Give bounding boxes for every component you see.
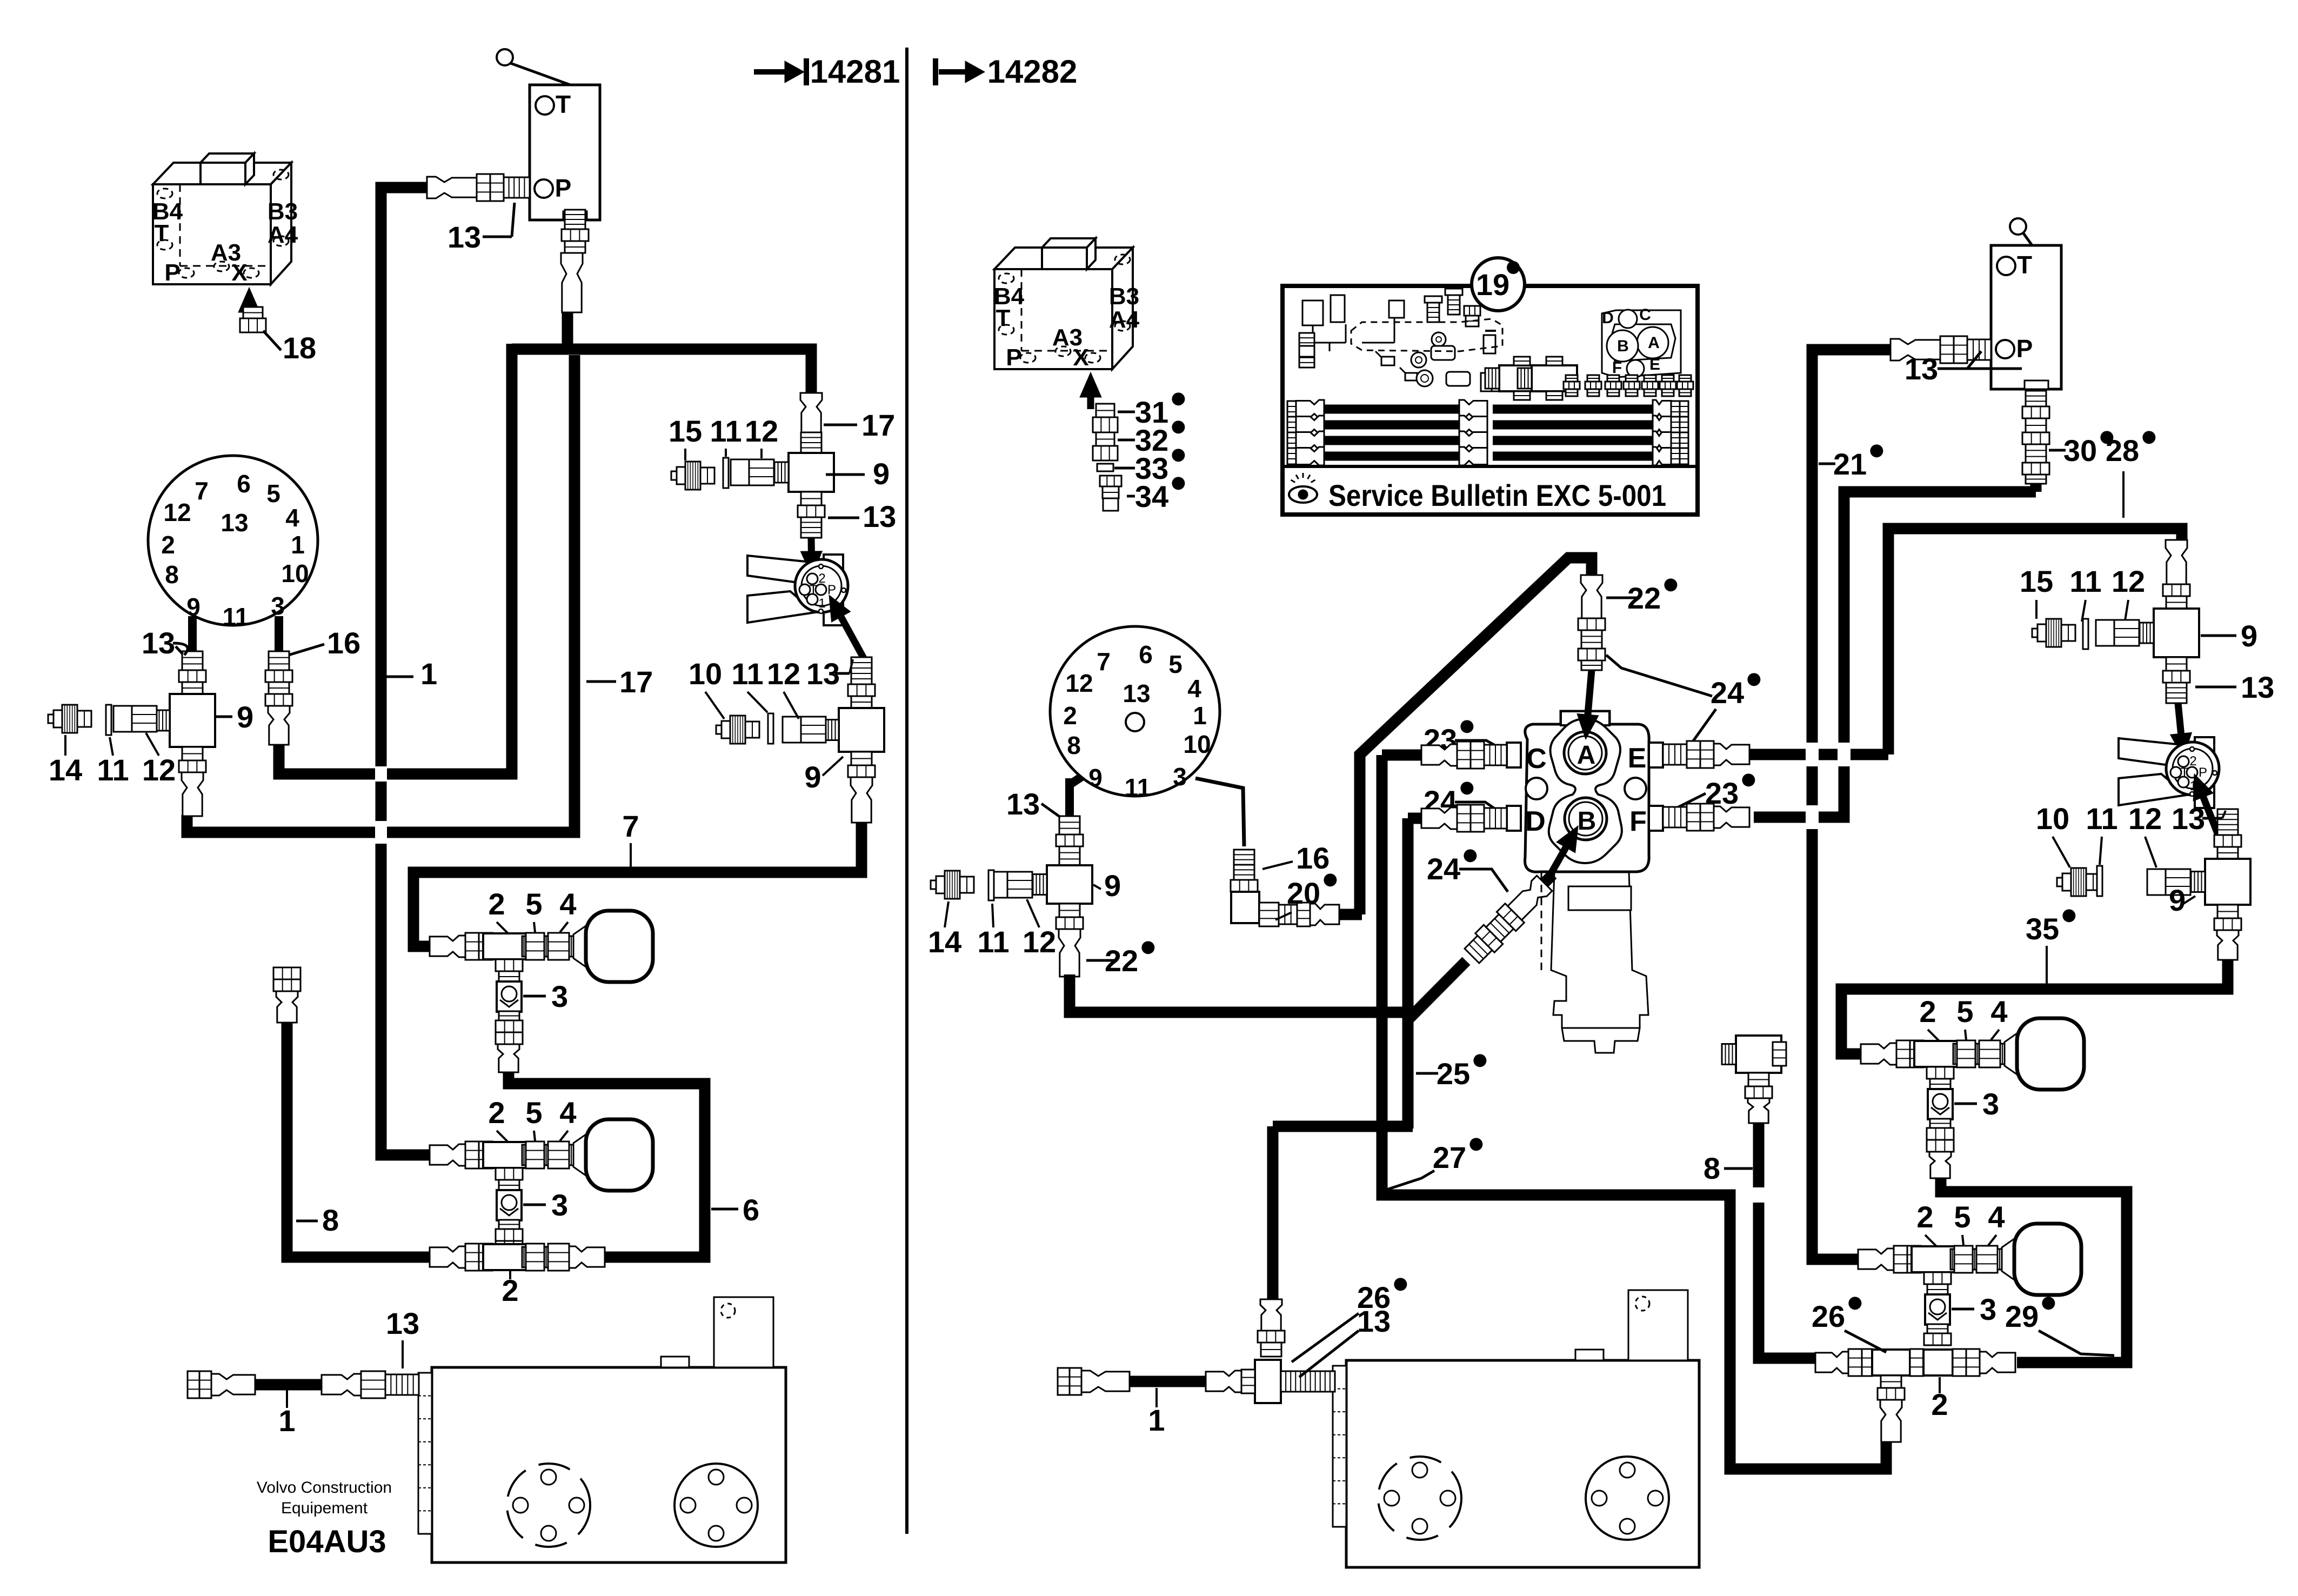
svg-text:2: 2	[1919, 994, 1936, 1029]
svg-text:5: 5	[525, 887, 542, 921]
svg-text:17: 17	[861, 408, 895, 442]
svg-text:5: 5	[266, 479, 280, 507]
svg-text:T: T	[996, 305, 1011, 331]
svg-text:13: 13	[386, 1306, 419, 1340]
svg-text:10: 10	[689, 657, 722, 691]
svg-text:4: 4	[559, 887, 576, 921]
svg-text:P: P	[2199, 765, 2207, 780]
svg-text:1: 1	[1148, 1403, 1165, 1437]
svg-text:A: A	[1648, 334, 1660, 352]
svg-text:11: 11	[2069, 564, 2101, 598]
svg-text:11: 11	[710, 414, 741, 448]
svg-text:11: 11	[1125, 773, 1151, 802]
svg-text:D: D	[1525, 806, 1546, 837]
svg-text:12: 12	[142, 753, 176, 787]
svg-text:13: 13	[806, 657, 840, 691]
svg-text:E: E	[1649, 356, 1660, 373]
svg-text:12: 12	[1065, 669, 1093, 697]
svg-text:E04AU3: E04AU3	[268, 1524, 386, 1559]
svg-text:2: 2	[1916, 1200, 1933, 1234]
svg-text:T: T	[556, 90, 571, 118]
svg-text:19: 19	[1476, 268, 1509, 302]
svg-text:11: 11	[223, 603, 249, 631]
svg-text:25: 25	[1437, 1057, 1470, 1091]
svg-text:12: 12	[1023, 925, 1056, 959]
svg-text:B: B	[1578, 807, 1596, 836]
svg-text:3: 3	[271, 592, 285, 620]
svg-text:5: 5	[1168, 650, 1183, 678]
svg-text:14: 14	[49, 753, 82, 787]
svg-text:F: F	[1612, 359, 1622, 377]
svg-text:24: 24	[1711, 676, 1744, 710]
svg-text:11: 11	[731, 657, 763, 691]
svg-text:2: 2	[1063, 702, 1077, 730]
svg-text:1: 1	[818, 596, 825, 611]
svg-text:13: 13	[221, 509, 248, 537]
svg-text:7: 7	[1097, 647, 1111, 676]
svg-text:9: 9	[804, 760, 821, 794]
svg-text:T: T	[155, 220, 169, 246]
svg-text:7: 7	[622, 809, 639, 843]
svg-text:28: 28	[2106, 433, 2139, 468]
svg-text:X: X	[231, 259, 247, 286]
svg-text:13: 13	[1357, 1304, 1391, 1338]
svg-text:3: 3	[551, 1188, 568, 1222]
svg-text:15: 15	[669, 414, 702, 448]
svg-text:8: 8	[1067, 731, 1081, 759]
svg-text:8: 8	[322, 1203, 339, 1237]
svg-text:16: 16	[327, 626, 360, 660]
svg-text:13: 13	[1006, 787, 1040, 821]
svg-text:26: 26	[1812, 1299, 1845, 1333]
svg-text:9: 9	[2241, 619, 2257, 653]
svg-text:30: 30	[2063, 433, 2097, 468]
svg-text:2: 2	[488, 887, 505, 921]
svg-text:14282: 14282	[987, 54, 1078, 90]
svg-text:8: 8	[165, 560, 179, 589]
svg-text:A: A	[1577, 741, 1596, 770]
svg-text:B3: B3	[1109, 283, 1139, 310]
svg-text:F: F	[1629, 806, 1647, 837]
svg-text:27: 27	[1433, 1140, 1466, 1174]
svg-text:11: 11	[2086, 802, 2117, 836]
svg-text:1: 1	[278, 1404, 295, 1438]
svg-text:Volvo Construction: Volvo Construction	[257, 1479, 392, 1497]
svg-text:3: 3	[1173, 763, 1187, 791]
svg-text:1: 1	[291, 531, 305, 559]
svg-text:1: 1	[1193, 702, 1207, 730]
svg-text:13: 13	[1123, 679, 1150, 707]
svg-text:2: 2	[161, 531, 175, 559]
svg-text:12: 12	[2112, 564, 2145, 598]
svg-text:5: 5	[525, 1096, 542, 1130]
svg-text:24: 24	[1427, 852, 1460, 886]
svg-text:9: 9	[1088, 764, 1103, 792]
svg-text:Equipement: Equipement	[281, 1499, 368, 1517]
svg-text:4: 4	[285, 504, 299, 532]
svg-text:11: 11	[977, 925, 1009, 959]
svg-text:10: 10	[2036, 802, 2069, 836]
svg-text:13: 13	[447, 220, 481, 254]
svg-text:17: 17	[619, 665, 653, 699]
svg-text:P: P	[2016, 335, 2033, 363]
svg-text:P: P	[827, 583, 836, 597]
svg-text:14: 14	[928, 925, 961, 959]
svg-text:X: X	[1073, 344, 1088, 371]
svg-text:C: C	[1639, 306, 1651, 324]
svg-text:D: D	[1602, 309, 1614, 327]
svg-text:34: 34	[1135, 479, 1168, 513]
svg-text:13: 13	[863, 499, 896, 533]
svg-text:P: P	[1006, 344, 1021, 371]
svg-text:3: 3	[551, 979, 568, 1013]
svg-text:4: 4	[559, 1096, 576, 1130]
svg-text:10: 10	[1183, 730, 1211, 758]
svg-text:5: 5	[1954, 1200, 1970, 1234]
svg-text:15: 15	[2020, 564, 2053, 598]
svg-text:13: 13	[2241, 670, 2274, 704]
svg-text:7: 7	[195, 477, 209, 505]
svg-text:B3: B3	[268, 198, 298, 225]
svg-text:6: 6	[743, 1193, 759, 1227]
svg-text:4: 4	[1990, 994, 2007, 1029]
svg-text:5: 5	[1956, 994, 1973, 1029]
svg-text:35: 35	[2026, 912, 2059, 946]
svg-text:3: 3	[1982, 1087, 1999, 1121]
svg-text:18: 18	[283, 331, 316, 365]
svg-text:13: 13	[142, 626, 175, 660]
svg-text:6: 6	[237, 470, 251, 498]
svg-text:14281: 14281	[810, 54, 900, 90]
svg-text:P: P	[555, 174, 572, 202]
svg-text:P: P	[164, 259, 180, 286]
svg-text:1: 1	[420, 657, 437, 691]
svg-text:12: 12	[2128, 802, 2162, 836]
svg-text:4: 4	[1988, 1200, 2005, 1234]
svg-text:T: T	[2017, 251, 2032, 279]
svg-text:8: 8	[1704, 1151, 1720, 1185]
svg-text:10: 10	[281, 559, 309, 587]
svg-text:4: 4	[1187, 675, 1201, 703]
svg-text:Service Bulletin EXC 5-001: Service Bulletin EXC 5-001	[1328, 478, 1666, 512]
svg-text:20: 20	[1287, 876, 1320, 910]
svg-text:B: B	[1617, 337, 1629, 355]
svg-text:2: 2	[488, 1096, 505, 1130]
svg-text:12: 12	[767, 657, 800, 691]
svg-text:9: 9	[1104, 869, 1121, 903]
svg-text:E: E	[1628, 743, 1647, 774]
svg-text:9: 9	[873, 457, 890, 491]
svg-text:12: 12	[745, 414, 778, 448]
svg-text:13: 13	[2172, 802, 2205, 836]
svg-text:29: 29	[2005, 1299, 2039, 1333]
svg-text:A4: A4	[268, 222, 298, 248]
svg-text:6: 6	[1139, 640, 1153, 669]
svg-text:16: 16	[1296, 841, 1330, 875]
svg-text:9: 9	[186, 593, 201, 621]
svg-text:9: 9	[237, 700, 253, 734]
svg-text:11: 11	[97, 753, 129, 787]
svg-text:9: 9	[2169, 883, 2186, 917]
svg-text:21: 21	[1833, 447, 1867, 481]
svg-text:12: 12	[163, 498, 191, 526]
svg-text:13: 13	[1905, 352, 1938, 386]
svg-text:A4: A4	[1109, 306, 1140, 333]
svg-text:C: C	[1526, 743, 1547, 774]
svg-text:3: 3	[1980, 1292, 1996, 1326]
